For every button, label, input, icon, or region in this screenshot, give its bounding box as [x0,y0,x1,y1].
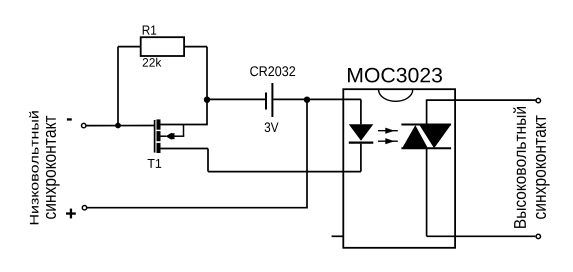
terminal plus (low-voltage) [82,206,86,210]
label T1 [148,159,162,168]
wire R1 right lead [184,46,207,48]
triac bottom bar (MT1) [401,147,451,149]
wire drain down [207,149,209,172]
wire node A to battery [207,98,265,100]
wire body arrow up to source row [183,125,185,137]
triac left triangle (pointing up) [402,125,428,148]
transistor T1 bottom channel bar [157,143,161,153]
node junction gate / R1 left [115,123,121,129]
light arrow lower [378,138,398,144]
triac right triangle (pointing down) [419,125,451,149]
wire triac MT1 down [426,148,428,236]
terminal high-voltage bottom [536,234,540,238]
wire minus terminal to gate node [86,125,154,127]
wire triac MT1 to high-voltage terminal [427,235,536,237]
wire node B to LED anode column [307,98,361,100]
wire drain to LED cathode [208,171,361,173]
terminal high-voltage top [536,98,540,102]
optocoupler U1 MOC3023 package outline [343,89,455,248]
label minus polarity [67,118,72,120]
wire T1 drain stub [161,148,209,150]
label Низковольтный синхроконтакт (low-voltage sync contact) [29,111,59,224]
node B junction battery / LED anode / plus branch [304,97,310,103]
wire node B down to plus rail [306,99,308,208]
label R1 [143,26,157,35]
wire LED cathode down [360,144,362,172]
optocoupler U1 pin-1 notch [379,90,413,102]
terminal minus (low-voltage) [82,123,86,127]
label plus polarity [66,209,76,219]
value 22k [143,58,162,67]
wire R1 left branch (vertical) [117,47,119,126]
pin stub (unused pin, left of package) [332,235,344,237]
value 3V [265,122,279,132]
transistor T1 (MOSFET) gate line [154,120,156,153]
wire T1 top bar to node A column [161,124,208,126]
wire battery to node B [273,98,307,100]
LED D1 cathode bar [349,141,374,143]
battery BT1 CR2032 negative plate [265,93,267,110]
transistor T1 middle channel bar [157,131,161,141]
transistor T1 top channel bar [157,119,161,129]
wire node A down to T1 source row [206,99,208,124]
label CR2032 [250,66,295,76]
wire plus rail [86,207,307,209]
battery BT1 CR2032 positive plate [271,83,273,117]
label MOC3023 [348,68,442,83]
wire R1 left lead [118,46,141,48]
resistor R1 [141,37,184,56]
light arrow upper [378,128,398,134]
triac top bar (MT2) [401,124,451,126]
LED D1 triangle [349,124,374,141]
transistor T1 body arrow (pointing left) [161,133,185,140]
node A junction R1 / battery / T1 source [204,97,210,103]
wire triac MT2 up [426,99,428,124]
wire LED anode (vertical) [360,99,362,124]
wire triac MT2 to high-voltage terminal [427,99,536,101]
wire R1 right branch (vertical to node A) [206,47,208,100]
label Высоковольтный синхроконтакт (high-voltage sync contact) [513,107,549,228]
